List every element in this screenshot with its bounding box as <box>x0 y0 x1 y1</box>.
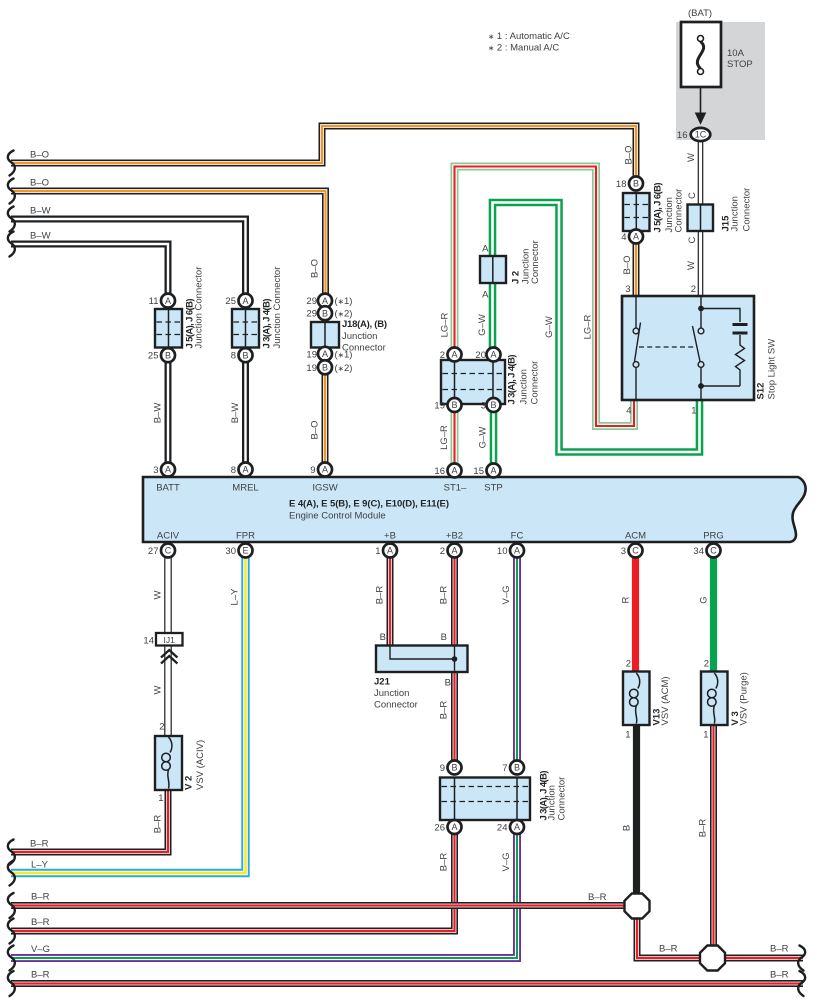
svg-text:ST1–: ST1– <box>444 483 467 494</box>
svg-text:3: 3 <box>621 546 626 557</box>
svg-text:16: 16 <box>434 466 445 477</box>
svg-text:J18(A), (B): J18(A), (B) <box>342 319 387 330</box>
svg-text:B–R: B–R <box>588 892 607 903</box>
svg-text:8: 8 <box>231 351 236 362</box>
svg-text:34: 34 <box>693 546 704 557</box>
svg-text:B–R: B–R <box>770 944 789 955</box>
svg-text:J 5(A), J 6(B): J 5(A), J 6(B) <box>653 183 664 233</box>
svg-text:Junction: Junction <box>730 196 741 231</box>
svg-text:1: 1 <box>158 793 163 804</box>
svg-text:W: W <box>686 153 697 162</box>
svg-text:B–O: B–O <box>624 145 635 164</box>
svg-text:Connector: Connector <box>674 189 685 233</box>
svg-text:19: 19 <box>434 401 445 412</box>
svg-text:R: R <box>621 596 632 603</box>
svg-text:A: A <box>242 296 248 306</box>
svg-text:Connector: Connector <box>342 343 386 354</box>
svg-text:10: 10 <box>497 546 508 557</box>
svg-text:Connector: Connector <box>530 240 541 284</box>
svg-text:B–R: B–R <box>153 815 164 834</box>
svg-text:W: W <box>153 590 164 599</box>
svg-text:V–G: V–G <box>501 852 512 871</box>
svg-text:26: 26 <box>434 823 445 834</box>
svg-text:1: 1 <box>703 730 708 741</box>
svg-text:A: A <box>490 350 496 360</box>
svg-text:B–O: B–O <box>622 255 633 274</box>
svg-text:A: A <box>451 546 457 556</box>
svg-text:2: 2 <box>691 284 696 295</box>
svg-text:(BAT): (BAT) <box>688 8 712 19</box>
svg-text:19: 19 <box>306 349 317 360</box>
svg-text:VSV (ACIV): VSV (ACIV) <box>195 740 206 790</box>
svg-text:29: 29 <box>306 309 317 320</box>
svg-text:A: A <box>451 822 457 832</box>
svg-text:A: A <box>242 465 248 475</box>
svg-text:B–W: B–W <box>30 206 51 217</box>
svg-text:Junction Connector: Junction Connector <box>272 267 283 349</box>
svg-text:+B2: +B2 <box>446 531 463 542</box>
svg-text:C: C <box>687 236 698 243</box>
svg-text:S12: S12 <box>756 383 767 400</box>
svg-text:27: 27 <box>148 546 159 557</box>
svg-text:B–W: B–W <box>153 403 164 424</box>
svg-text:3: 3 <box>625 284 630 295</box>
svg-text:FPR: FPR <box>236 531 255 542</box>
svg-text:ACM: ACM <box>625 531 646 542</box>
svg-text:1: 1 <box>625 730 630 741</box>
svg-text:B–R: B–R <box>31 892 50 903</box>
svg-text:LG–R: LG–R <box>439 425 450 450</box>
svg-text:18: 18 <box>616 179 627 190</box>
svg-text:B–O: B–O <box>310 259 321 278</box>
svg-text:(∗1): (∗1) <box>335 296 353 307</box>
svg-text:4: 4 <box>626 406 631 417</box>
svg-text:A: A <box>633 232 639 242</box>
svg-text:11: 11 <box>149 296 159 307</box>
svg-text:A: A <box>322 349 328 359</box>
svg-text:20: 20 <box>475 350 486 361</box>
svg-text:W: W <box>686 261 697 270</box>
svg-text:MREL: MREL <box>232 483 258 494</box>
svg-text:∗ 2 : Manual A/C: ∗ 2 : Manual A/C <box>488 43 559 54</box>
svg-text:B: B <box>451 400 457 410</box>
svg-text:A: A <box>165 296 171 306</box>
svg-text:(∗2): (∗2) <box>335 363 353 374</box>
svg-text:V–G: V–G <box>501 585 512 604</box>
svg-text:IGSW: IGSW <box>312 483 337 494</box>
svg-text:Junction: Junction <box>374 688 409 699</box>
svg-text:Junction: Junction <box>519 369 530 404</box>
svg-text:ACIV: ACIV <box>157 531 180 542</box>
svg-text:B–W: B–W <box>30 231 51 242</box>
svg-text:V 2: V 2 <box>184 776 195 790</box>
svg-text:B: B <box>622 825 633 831</box>
svg-text:B–R: B–R <box>439 701 450 720</box>
svg-text:29: 29 <box>306 296 317 307</box>
svg-text:9: 9 <box>310 465 315 476</box>
svg-text:B: B <box>322 308 328 318</box>
svg-text:G: G <box>699 596 710 603</box>
svg-text:STP: STP <box>484 483 502 494</box>
svg-text:J21: J21 <box>374 677 391 688</box>
svg-text:B–R: B–R <box>770 970 789 981</box>
svg-text:4: 4 <box>621 232 626 243</box>
svg-text:Connector: Connector <box>530 361 541 405</box>
svg-text:B: B <box>322 363 328 373</box>
svg-text:A: A <box>490 466 496 476</box>
svg-text:24: 24 <box>497 823 508 834</box>
svg-text:PRG: PRG <box>703 531 724 542</box>
svg-text:B–R: B–R <box>375 586 386 605</box>
svg-text:25: 25 <box>148 351 159 362</box>
svg-text:G–W: G–W <box>477 314 488 336</box>
svg-text:A: A <box>451 466 457 476</box>
svg-text:30: 30 <box>225 546 236 557</box>
svg-text:B–R: B–R <box>30 839 49 850</box>
svg-text:B–O: B–O <box>30 178 49 189</box>
svg-text:VSV (Purge): VSV (Purge) <box>739 672 750 725</box>
svg-text:C: C <box>687 192 698 199</box>
svg-text:A: A <box>451 350 457 360</box>
svg-text:E 4(A), E 5(B), E 9(C), E10(D): E 4(A), E 5(B), E 9(C), E10(D), E11(E) <box>289 499 449 510</box>
svg-text:16: 16 <box>677 130 688 141</box>
svg-text:B: B <box>380 632 386 643</box>
svg-text:3: 3 <box>481 401 486 412</box>
svg-text:B–R: B–R <box>659 944 678 955</box>
svg-text:C: C <box>632 546 639 556</box>
svg-text:Junction: Junction <box>342 331 377 342</box>
svg-text:Connector: Connector <box>742 188 753 232</box>
svg-text:14: 14 <box>143 636 154 647</box>
svg-text:19: 19 <box>306 363 317 374</box>
svg-text:B: B <box>490 400 496 410</box>
svg-text:2: 2 <box>440 350 445 361</box>
svg-text:A: A <box>387 546 393 556</box>
svg-text:10A: 10A <box>727 48 745 59</box>
svg-text:2: 2 <box>440 546 445 557</box>
svg-text:Engine Control Module: Engine Control Module <box>289 511 386 522</box>
svg-text:B: B <box>445 678 451 689</box>
svg-text:G–W: G–W <box>478 427 489 449</box>
svg-text:8: 8 <box>231 465 236 476</box>
svg-text:L–Y: L–Y <box>230 588 241 606</box>
svg-text:1: 1 <box>375 546 380 557</box>
svg-text:B: B <box>165 350 171 360</box>
svg-text:A: A <box>322 465 328 475</box>
svg-text:B–O: B–O <box>310 420 321 439</box>
svg-text:2: 2 <box>626 659 631 670</box>
svg-text:1: 1 <box>691 406 696 417</box>
svg-text:Connector: Connector <box>557 777 568 821</box>
svg-text:LG–R: LG–R <box>440 312 451 337</box>
svg-text:B: B <box>441 632 447 643</box>
svg-text:B: B <box>514 763 520 773</box>
svg-text:9: 9 <box>440 763 445 774</box>
svg-text:A: A <box>482 244 489 255</box>
svg-text:B–R: B–R <box>439 586 450 605</box>
svg-text:B–R: B–R <box>31 970 50 981</box>
svg-text:25: 25 <box>225 296 236 307</box>
svg-text:J 3(A), J 4(B): J 3(A), J 4(B) <box>507 355 518 405</box>
svg-text:3: 3 <box>153 465 158 476</box>
svg-text:B–R: B–R <box>698 819 709 838</box>
svg-text:C: C <box>710 546 717 556</box>
svg-text:7: 7 <box>502 763 507 774</box>
svg-text:C: C <box>165 546 172 556</box>
svg-text:A: A <box>514 822 520 832</box>
svg-text:IJ1: IJ1 <box>164 635 176 645</box>
svg-text:15: 15 <box>473 466 484 477</box>
svg-text:2: 2 <box>159 722 164 733</box>
svg-text:VSV (ACM): VSV (ACM) <box>660 676 671 725</box>
svg-text:Connector: Connector <box>374 700 418 711</box>
svg-text:STOP: STOP <box>727 59 753 70</box>
svg-text:G–W: G–W <box>544 316 555 338</box>
svg-text:A: A <box>165 465 171 475</box>
svg-text:B: B <box>242 350 248 360</box>
svg-text:B–R: B–R <box>439 853 450 872</box>
svg-text:BATT: BATT <box>156 483 180 494</box>
svg-text:B–W: B–W <box>230 403 241 424</box>
svg-text:B: B <box>451 763 457 773</box>
svg-text:B–R: B–R <box>31 917 50 928</box>
svg-text:2: 2 <box>704 659 709 670</box>
svg-text:L–Y: L–Y <box>31 860 49 871</box>
svg-text:A: A <box>482 290 489 301</box>
svg-text:E: E <box>242 546 248 556</box>
svg-text:Junction Connector: Junction Connector <box>194 267 205 349</box>
svg-text:A: A <box>322 296 328 306</box>
svg-text:+B: +B <box>384 531 396 542</box>
svg-text:FC: FC <box>511 531 524 542</box>
svg-text:LG–R: LG–R <box>583 314 594 339</box>
svg-text:∗ 1 : Automatic A/C: ∗ 1 : Automatic A/C <box>488 31 570 42</box>
svg-text:A: A <box>514 546 520 556</box>
svg-text:Stop Light SW: Stop Light SW <box>767 339 778 400</box>
svg-text:W: W <box>153 685 164 694</box>
svg-text:B: B <box>633 179 639 189</box>
svg-text:B–O: B–O <box>30 150 49 161</box>
svg-text:1C: 1C <box>695 130 707 140</box>
svg-text:J 3(A), J 4(B): J 3(A), J 4(B) <box>262 299 273 349</box>
svg-text:V–G: V–G <box>31 944 50 955</box>
